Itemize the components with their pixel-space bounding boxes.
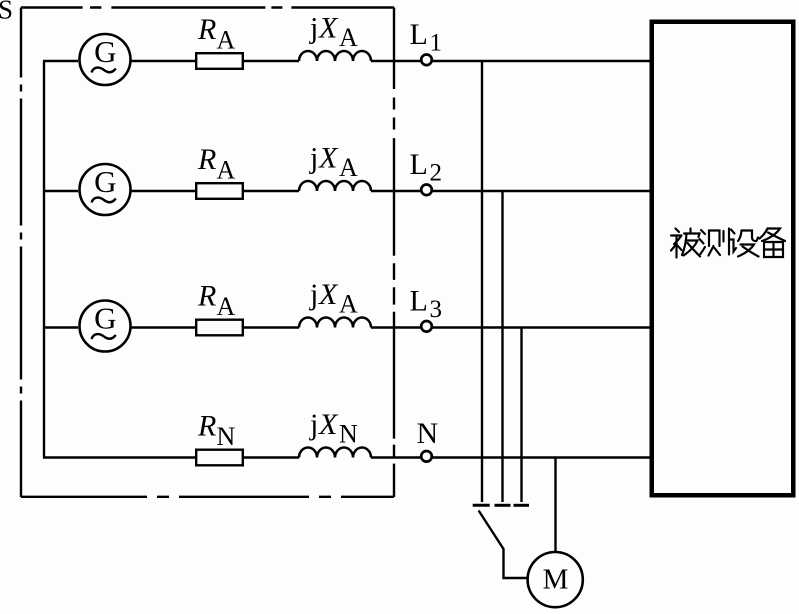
wire row4: R_N to jX_N bbox=[244, 456, 299, 458]
switch blade and wire to motor bbox=[479, 511, 527, 579]
wire row2: R2 to jX2 bbox=[244, 190, 299, 192]
inductor jX_A (row1) bbox=[299, 51, 371, 61]
svg-text:N: N bbox=[217, 422, 236, 451]
wire row1: jX1 to terminal L1 bbox=[371, 60, 421, 62]
svg-text:N: N bbox=[417, 417, 439, 450]
svg-text:L: L bbox=[410, 148, 428, 181]
svg-text:3: 3 bbox=[430, 296, 443, 323]
left bus wire bbox=[43, 61, 45, 458]
label L2 bbox=[410, 148, 443, 187]
wire row3: bus to G3 bbox=[43, 326, 78, 328]
wire row1: R1 to jX1 bbox=[244, 60, 299, 62]
label R_N bbox=[197, 410, 236, 452]
wire row3: L3 to device box bbox=[433, 326, 652, 328]
svg-text:j: j bbox=[309, 408, 318, 441]
label jX_A (row2) bbox=[309, 142, 358, 182]
label R_A (row2) bbox=[197, 143, 236, 185]
svg-text:G: G bbox=[94, 34, 116, 69]
wire row3: G3 to R3 bbox=[131, 326, 196, 328]
device label 被测设备: glyph 备 bbox=[760, 229, 786, 258]
terminal L2 bbox=[421, 185, 432, 196]
inductor jX_N bbox=[299, 448, 371, 458]
terminal N bbox=[421, 451, 432, 462]
svg-text:X: X bbox=[318, 142, 339, 175]
label jX_A (row1) bbox=[309, 12, 358, 52]
boundary box S: bottom border (dash-dot) bbox=[21, 496, 394, 498]
svg-text:2: 2 bbox=[430, 160, 443, 187]
svg-text:j: j bbox=[309, 278, 318, 311]
svg-text:R: R bbox=[197, 410, 216, 443]
wire row4: N to device box bbox=[433, 456, 652, 458]
wire tap from L1 down to switch bbox=[481, 61, 483, 502]
wire row4: jX_N to terminal N bbox=[371, 456, 421, 458]
svg-text:A: A bbox=[217, 292, 236, 321]
terminal L1 bbox=[421, 55, 432, 66]
svg-text:R: R bbox=[197, 13, 216, 46]
wire tap from L3 down to switch bbox=[520, 328, 522, 503]
device label 被测设备: glyph 设 bbox=[729, 230, 759, 257]
resistor R_A (row1) bbox=[196, 53, 243, 69]
svg-text:A: A bbox=[339, 23, 358, 52]
wire row4: bus to R_N bbox=[43, 456, 195, 458]
wire row1: bus to G1 bbox=[43, 60, 78, 62]
svg-text:X: X bbox=[318, 408, 339, 441]
svg-text:G: G bbox=[94, 301, 116, 336]
terminal L3 bbox=[421, 321, 432, 332]
svg-text:L: L bbox=[410, 285, 428, 318]
inductor jX_A (row3) bbox=[299, 318, 371, 328]
svg-text:j: j bbox=[309, 12, 318, 45]
svg-text:X: X bbox=[318, 278, 339, 311]
svg-text:j: j bbox=[309, 142, 318, 175]
resistor R_N bbox=[196, 450, 243, 466]
wire row2: bus to G2 bbox=[43, 190, 78, 192]
switch contact bar 2 bbox=[495, 504, 511, 507]
boundary box S: right border (dashed) bbox=[393, 8, 395, 498]
wire row2: jX2 to terminal L2 bbox=[371, 190, 421, 192]
svg-text:A: A bbox=[217, 26, 236, 55]
label jX_A (row3) bbox=[309, 278, 358, 318]
wire tap from L2 down to switch bbox=[501, 191, 503, 502]
boundary box S: left border (dash-dot) bbox=[20, 8, 22, 498]
svg-text:M: M bbox=[543, 564, 569, 596]
svg-text:X: X bbox=[318, 12, 339, 45]
device label 被测设备: glyph 测 bbox=[700, 229, 730, 256]
device box (被测设备) bbox=[652, 22, 794, 496]
label R_A (row3) bbox=[197, 280, 236, 322]
svg-text:R: R bbox=[197, 280, 216, 313]
resistor R_A (row3) bbox=[196, 320, 243, 336]
label L1 bbox=[410, 18, 443, 57]
label L3 bbox=[410, 285, 443, 324]
switch contact bar 1 bbox=[473, 504, 490, 507]
label R_A (row1) bbox=[197, 13, 236, 55]
wire tap from N down to motor bbox=[554, 458, 556, 552]
svg-text:N: N bbox=[339, 419, 358, 448]
boundary box S: top border (dash-dot) bbox=[21, 6, 394, 8]
wire row2: L2 to device box bbox=[433, 190, 652, 192]
switch contact bar 3 bbox=[514, 504, 530, 507]
inductor jX_A (row2) bbox=[299, 181, 371, 191]
resistor R_A (row2) bbox=[196, 183, 243, 199]
wire row3: jX3 to terminal L3 bbox=[371, 326, 421, 328]
svg-text:R: R bbox=[197, 143, 216, 176]
wire row3: R3 to jX3 bbox=[244, 326, 299, 328]
svg-text:G: G bbox=[94, 164, 116, 199]
svg-text:A: A bbox=[217, 156, 236, 185]
svg-text:1: 1 bbox=[430, 30, 443, 57]
generator G3 bbox=[80, 301, 131, 352]
generator G1 bbox=[80, 34, 131, 85]
svg-text:A: A bbox=[339, 153, 358, 182]
svg-text:A: A bbox=[339, 289, 358, 318]
wire row1: L1 to device box bbox=[433, 60, 652, 62]
motor M bbox=[528, 552, 583, 607]
label jX_N bbox=[309, 408, 358, 448]
generator G2 bbox=[80, 164, 131, 215]
svg-text:S: S bbox=[0, 0, 13, 25]
wire row2: G2 to R2 bbox=[131, 190, 196, 192]
svg-text:L: L bbox=[410, 18, 428, 51]
device label 被测设备: glyph 被 bbox=[671, 229, 700, 258]
wire row1: G1 to R1 bbox=[131, 60, 196, 62]
